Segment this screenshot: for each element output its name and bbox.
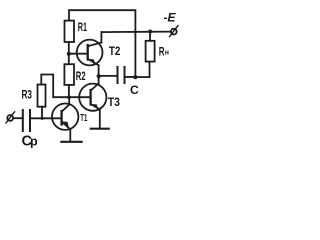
svg-text:T3: T3 (108, 97, 120, 109)
svg-text:R1: R1 (78, 22, 88, 34)
svg-text:R3: R3 (22, 90, 33, 102)
svg-text:R2: R2 (76, 71, 86, 83)
svg-text:-E: -E (164, 11, 177, 25)
svg-text:p: p (30, 135, 38, 148)
svg-text:T2: T2 (109, 46, 121, 58)
svg-text:T1: T1 (80, 113, 87, 124)
svg-text:н: н (165, 49, 169, 56)
svg-text:C: C (130, 83, 139, 97)
